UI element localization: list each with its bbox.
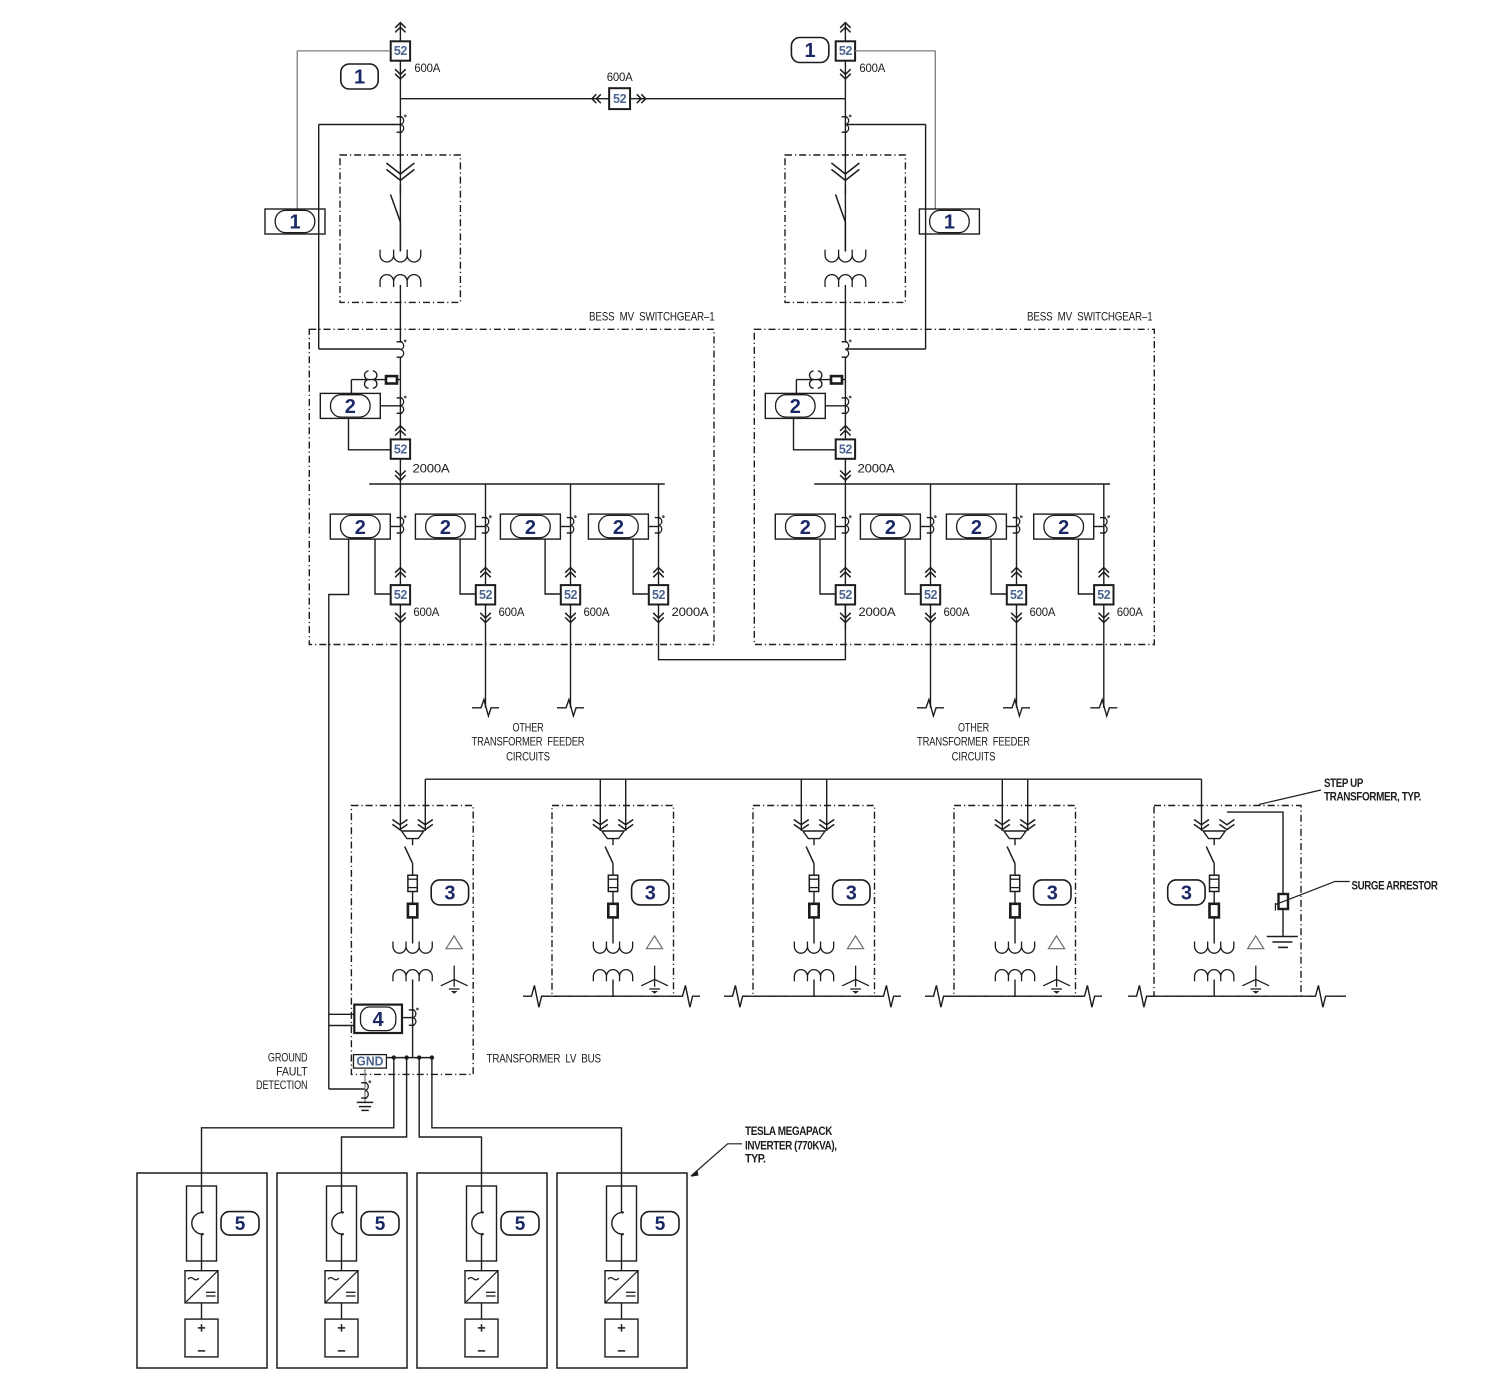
step-up transformer secondary winding [794,970,833,982]
break: LV bus right [1307,985,1333,1007]
arrow: feeder 1 flow up [840,568,851,573]
wire: feeder relay tap [475,526,486,528]
arrow: incoming flow double chevron [831,163,859,174]
step-up transformer primary winding [995,942,1034,954]
CT feeder 1 [397,517,403,519]
wire: relay CT tap [380,405,400,407]
arrow: right bushing double chevron [418,820,433,825]
svg-text:600A: 600A [1030,605,1056,619]
callout 3 step-up transformer [833,880,870,905]
wire: MV loop drop [1201,779,1203,831]
wire: relay to breaker [349,418,391,449]
wire: 2000A tie between switchgears [659,605,846,660]
grounded wye symbol (secondary) [1056,966,1058,987]
wire: PT to relay [795,380,797,394]
wire: contactor to inverter [201,1234,203,1271]
wire: left feeder 2 tail [485,630,487,708]
breaker 52 utility main (right) [844,61,846,99]
svg-text:1: 1 [289,212,300,234]
wire: feeder relay tap [560,526,571,528]
svg-text:52: 52 [479,588,493,602]
svg-text:2: 2 [355,517,366,539]
svg-text:2000A: 2000A [858,605,895,619]
breaker 52 utility main (left) [399,61,401,99]
arrow: source direction up [395,23,405,28]
svg-text:600A: 600A [414,61,440,75]
bus: transformer LV bus segment [944,995,1083,997]
disconnect switch blade [806,847,814,864]
arrow: left bushing double chevron [392,820,407,825]
svg-text:5: 5 [655,1214,666,1235]
wire: contactor to inverter [481,1234,483,1271]
step-up transformer secondary winding [995,970,1034,982]
wire: CT secondary tap [845,124,925,126]
svg-text:3: 3 [444,883,455,905]
leader: megapack label [691,1144,742,1176]
battery (megapack 3) [465,1319,498,1357]
callout 5 (megapack 4) [641,1212,679,1236]
wire: breaker status to tag 1 (grey) [297,50,391,52]
inverter (megapack 3) [465,1271,498,1303]
break: LV bus right [674,985,700,1007]
svg-text:2: 2 [790,396,801,418]
svg-text:OTHER: OTHER [513,721,544,735]
svg-text:2: 2 [345,396,356,418]
disconnect switch blade [405,847,413,864]
megapack 1 enclosure [137,1173,267,1368]
relay tag 4 ground fault [354,1005,402,1033]
CT feeder 3 [567,517,573,519]
CT incomer [842,341,848,343]
svg-text:2: 2 [1058,517,1069,539]
svg-text:4: 4 [372,1009,384,1031]
bushing throat (trapezoid) [1203,831,1225,839]
callout 5 (megapack 1) [221,1212,259,1236]
arrow: left bushing double chevron [995,820,1010,825]
svg-text:3: 3 [645,883,656,905]
svg-text:52: 52 [652,588,666,602]
grounded wye symbol (secondary) [1255,966,1257,987]
svg-text:2: 2 [800,517,811,539]
disconnect switch blade [399,185,401,194]
contactor (megapack 2) [327,1186,357,1261]
wire: feeder 4 drop from bus [1103,484,1105,585]
wire: LV feeder to megapack 4 [432,1058,622,1213]
step-up transformer secondary winding [393,970,432,982]
svg-text:1: 1 [354,67,365,89]
CT feeder 4 [1100,517,1106,519]
step-up transformer block (dash-dot enclosure) [351,806,473,1075]
wire: LV feeder to megapack 2 [342,1058,407,1213]
svg-text:52: 52 [924,588,938,602]
ground (system) [357,1101,373,1103]
CT feeder 1 [842,517,848,519]
wire: relay to feeder breaker [460,539,476,594]
relay tag 2 feeder 1 [775,514,835,539]
svg-text:600A: 600A [584,605,610,619]
potential transformer PT [796,379,845,381]
relay tag 2 incomer [765,393,825,418]
svg-text:600A: 600A [944,605,970,619]
wire: contactor to inverter [341,1234,343,1271]
wire: inverter to battery [621,1303,623,1319]
breaker 52 feeder 2 [921,585,940,604]
breaker 52 feeder 3 [561,585,580,604]
wire: utility source stub (right feed) [844,24,846,41]
wire: right feeder 4 tail [1103,630,1105,708]
junction: LV bus tap 1 [392,1055,396,1059]
svg-text:CIRCUITS: CIRCUITS [952,749,996,763]
fuse element [608,875,617,891]
grounded wye symbol (secondary) [855,966,857,987]
wire: MV loop drop [800,779,802,831]
wire: secondary down [1014,980,1016,997]
svg-text:2: 2 [613,517,624,539]
break: LV bus right [1076,985,1102,1007]
wire: feeder relay tap [1006,526,1017,528]
breaker 52 feeder 1 [836,585,855,604]
delta symbol (primary) [446,936,462,949]
wire: relay 4 to ground CT [329,1088,365,1090]
arrow: feeder 4 flow down [1099,613,1110,618]
callout 5 (megapack 3) [501,1212,539,1236]
callout 3 step-up transformer [431,880,468,905]
breaker 52 tie [592,94,596,103]
tag 1 left [265,209,325,234]
svg-text:GROUND: GROUND [268,1050,308,1064]
disconnect switch blade [844,185,846,194]
junction: LV bus tap 2 [404,1055,408,1059]
fuse holder [1010,904,1019,918]
svg-text:600A: 600A [413,605,439,619]
wire: feeder 4 drop from bus [658,484,660,585]
wire: MV loop drop [424,779,426,831]
svg-text:3: 3 [846,883,857,905]
wire: inverter to battery [481,1303,483,1319]
arrow: feeder 4 flow up [1099,568,1110,573]
bus: transformer LV bus segment [542,995,681,997]
wire: fuse to winding [612,917,614,943]
fuse PT primary [831,376,842,383]
wire: transformer secondary down to switchgear [844,285,846,342]
fuse holder [809,904,818,918]
breaker 52 feeder 3 [1007,585,1026,604]
svg-text:TRANSFORMER, TYP.: TRANSFORMER, TYP. [1324,790,1421,803]
delta symbol (primary) [1048,936,1064,949]
arrow: load direction down [395,69,406,74]
wire: main vertical from tie to transformer [844,99,846,252]
wire: secondary down [612,980,614,997]
svg-text:600A: 600A [607,70,633,84]
wire: MV loop drop [1001,779,1003,831]
break: right feeder 3 continues [1003,700,1030,716]
wire: feeder relay tap [835,526,846,528]
svg-text:TRANSFORMER LV BUS: TRANSFORMER LV BUS [487,1051,602,1065]
step-up transformer secondary winding [593,970,632,982]
wire: secondary down [813,980,815,997]
wire: left feeder 1 down to step-up block [399,630,401,831]
svg-text:2000A: 2000A [672,605,709,619]
svg-text:FAULT: FAULT [276,1064,308,1078]
delta symbol (primary) [646,936,662,949]
wire: feeder relay tap [920,526,931,528]
wire: feeder 1 relay to ground fault relay (long run) [329,539,349,1089]
step-up transformer block (dash-dot enclosure) [954,806,1076,997]
wire: relay to feeder breaker [991,539,1007,594]
leader: surge arrestor label [1275,882,1349,905]
svg-text:GND: GND [356,1054,383,1068]
svg-text:INVERTER (770KVA),: INVERTER (770KVA), [745,1140,837,1153]
contactor (megapack 4) [607,1186,637,1261]
arrow: source direction up [840,23,850,28]
svg-text:600A: 600A [1117,605,1143,619]
wire: breaker status to tag 1 right (grey) [855,50,935,52]
tag 1 right [919,209,979,234]
GND bus tag [354,1055,387,1069]
svg-text:600A: 600A [859,61,885,75]
transformer secondary winding [825,275,866,287]
wire: feeder 2 drop from bus [485,484,487,585]
break: feeder 2 continues [472,700,499,716]
step-up transformer block (dash-dot enclosure) [552,806,674,997]
wire: MV loop drop [599,779,601,831]
wire: CT secondary tap [319,124,401,126]
wire: relay to feeder breaker [375,539,391,594]
arrow: left bushing double chevron [1194,820,1209,825]
CT feeder 4 [655,517,661,519]
wire: LV feeder to megapack 1 [202,1058,394,1213]
step-up transformer block (dash-dot enclosure) [753,806,875,997]
step-up transformer block (dash-dot enclosure) [1154,806,1301,997]
wire: relay to feeder breaker [633,539,649,594]
svg-text:1: 1 [805,40,816,62]
arrow: flow down to bus [840,471,851,476]
relay tag 2 feeder 4 [588,514,648,539]
transformer primary winding [380,250,421,262]
wire: main vertical from tie to transformer [399,99,401,252]
wire: relay to breaker [794,418,836,449]
relay tag 2 feeder 3 [946,514,1006,539]
inverter (megapack 4) [605,1271,638,1303]
bus: switchgear MV bus [814,483,1110,485]
wire: CT tap to relay 4 [402,1017,413,1019]
switchgear enclosure BESS MV SWITCHGEAR-1 (dash-dot) [754,329,1154,644]
svg-text:TYP.: TYP. [745,1153,766,1166]
transformer secondary winding [380,275,421,287]
bus: step-up transformer MV loop [425,778,1201,780]
megapack 2 enclosure [277,1173,407,1368]
svg-text:52: 52 [839,442,853,456]
grounded wye symbol (secondary) [654,966,656,987]
wire: transformer secondary down to switchgear [399,285,401,342]
CT feeder 3 [1013,517,1019,519]
callout 5 (megapack 2) [361,1212,399,1236]
wire: right feeder 3 tail [1016,630,1018,708]
fuse holder [408,904,417,918]
fuse holder [608,904,617,918]
svg-text:2000A: 2000A [858,461,895,475]
transformer primary winding [825,250,866,262]
arrow: feeder 2 flow up [925,568,936,573]
CT feeder 2 [927,517,933,519]
megapack 4 enclosure [557,1173,687,1368]
CT incomer relaying [842,397,848,399]
grounded wye symbol (secondary) [453,966,455,987]
battery (megapack 1) [185,1319,218,1357]
arrow: feeder 3 flow up [1011,568,1022,573]
relay tag 2 feeder 4 [1034,514,1094,539]
wire: feeder relay tap [390,526,401,528]
CT incomer [397,341,403,343]
fuse holder [1210,904,1219,918]
CT incomer relaying [397,397,403,399]
svg-text:2000A: 2000A [413,461,450,475]
arrow: feeder 2 flow up [480,568,491,573]
bushing throat (trapezoid) [402,831,424,839]
break: right feeder 4 continues [1090,700,1117,716]
relay tag 2 feeder 2 [415,514,475,539]
fuse element [1210,875,1219,891]
svg-text:5: 5 [375,1214,386,1235]
CT metering (top) [842,116,848,118]
bushing throat (trapezoid) [602,831,624,839]
callout 1 (left feed) [341,64,378,89]
disconnect switch blade [605,847,613,864]
CT metering (top) [397,116,403,118]
wire: relay 4 inputs [329,1013,355,1015]
inverter (megapack 1) [185,1271,218,1303]
bus: switchgear MV bus [369,483,665,485]
wire: inverter to battery [201,1303,203,1319]
junction: LV bus tap 3 [417,1055,421,1059]
svg-text:2: 2 [440,517,451,539]
svg-text:2: 2 [525,517,536,539]
arrow: load direction down [840,69,851,74]
svg-text:52: 52 [1097,588,1111,602]
relay tag 2 feeder 2 [860,514,920,539]
wire: fuse to winding [412,917,414,943]
battery (megapack 2) [325,1319,358,1357]
wire: tie bus between feeds [400,98,845,100]
relay tag 2 incomer [320,393,380,418]
svg-text:TESLA MEGAPACK: TESLA MEGAPACK [745,1125,833,1138]
wire: fuse to winding [1014,917,1016,943]
svg-text:1: 1 [944,212,955,234]
wire: secondary down [1213,980,1215,997]
wire: MV loop drop [1027,779,1029,831]
break: feeder 3 continues [557,700,584,716]
svg-text:52: 52 [394,442,408,456]
svg-text:CIRCUITS: CIRCUITS [506,749,550,763]
bus: LV bus stub beyond break [1333,995,1346,997]
wire: right feeder 2 tail [930,630,932,708]
wire: relay to feeder breaker [820,539,836,594]
battery (megapack 4) [605,1319,638,1357]
arrow: flow up into breaker [395,426,406,431]
CT ground conductor [361,1082,367,1084]
fuse PT primary [386,376,397,383]
bus: transformer LV bus segment [743,995,882,997]
svg-text:TRANSFORMER FEEDER: TRANSFORMER FEEDER [917,735,1030,749]
break: LV bus left [523,985,549,1007]
step-up transformer primary winding [393,942,432,954]
svg-text:DETECTION: DETECTION [256,1078,308,1092]
svg-text:52: 52 [564,588,578,602]
arrow: feeder 1 flow down [395,613,406,618]
step-up transformer primary winding [794,942,833,954]
breaker 52 feeder 2 [476,585,495,604]
arrow: feeder 4 flow up [653,568,664,573]
wire: feeder 3 drop from bus [570,484,572,585]
wire: surge arrestor branch [1227,812,1283,894]
svg-text:52: 52 [1010,588,1024,602]
disconnect switch blade [1206,847,1214,864]
contactor (megapack 3) [467,1186,497,1261]
relay tag 2 feeder 1 [330,514,390,539]
svg-text:TRANSFORMER FEEDER: TRANSFORMER FEEDER [472,735,585,749]
wire: relay CT tap [825,405,845,407]
wire: feeder 1 drop from bus [844,484,846,585]
svg-text:2: 2 [971,517,982,539]
break: LV bus left [1128,985,1154,1007]
step-up transformer primary winding [1195,942,1234,954]
leader: step up transformer label [1259,790,1321,805]
svg-text:BESS MV SWITCHGEAR–1: BESS MV SWITCHGEAR–1 [589,309,715,323]
wire: MV loop drop [826,779,828,831]
svg-text:600A: 600A [499,605,525,619]
relay tag 2 feeder 3 [500,514,560,539]
wire: LV feeder to megapack 3 [419,1058,481,1213]
delta symbol (primary) [1248,936,1264,949]
svg-text:OTHER: OTHER [958,721,989,735]
wire: fuse to winding [1213,917,1215,943]
fuse element [809,875,818,891]
arrow: incoming flow double chevron [386,163,414,174]
wire: feeder 2 drop from bus [930,484,932,585]
step-up transformer primary winding [593,942,632,954]
wire: fuse to winding [813,917,815,943]
svg-text:52: 52 [839,588,853,602]
wire: feeder relay tap [1093,526,1104,528]
wire: feeder relay tap [648,526,659,528]
arrow: feeder 1 flow up [395,568,406,573]
break: right feeder 2 continues [917,700,944,716]
wire: MV loop drop [625,779,627,831]
callout 3 step-up transformer [1168,880,1205,905]
callout 3 step-up transformer [632,880,669,905]
svg-text:2: 2 [885,517,896,539]
wire: incomer vertical through switchgear [399,357,401,439]
arrow: feeder 3 flow up [565,568,576,573]
svg-text:3: 3 [1047,883,1058,905]
bushing throat (trapezoid) [1004,831,1026,839]
breaker 52 feeder 4 [649,585,668,604]
wire: feeder 1 drop from bus [399,484,401,585]
arrow: flow down to bus [395,471,406,476]
bus: transformer LV bus (block 1) [386,1057,432,1059]
breaker 52 feeder 4 [1094,585,1113,604]
delta symbol (primary) [847,936,863,949]
arrow: feeder 2 flow down [480,613,491,618]
wire: inverter to battery [341,1303,343,1319]
arrow: right bushing double chevron [618,820,633,825]
wire: relay to feeder breaker [905,539,921,594]
svg-text:5: 5 [235,1214,246,1235]
arrow: right bushing double chevron [819,820,834,825]
wire: relay to feeder breaker [545,539,561,594]
wire: utility source stub (left feed) [399,24,401,41]
arrow: feeder 1 flow down [840,613,851,618]
